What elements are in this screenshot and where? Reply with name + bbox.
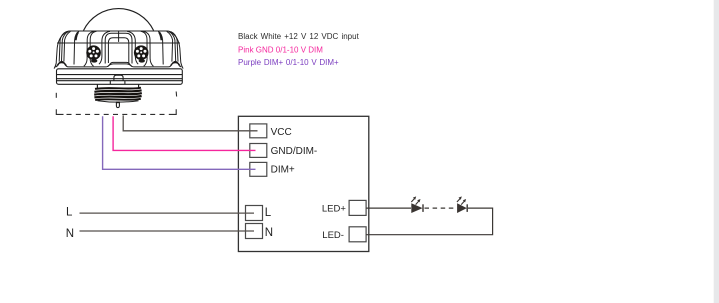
svg-text:LED-: LED- xyxy=(322,230,344,241)
svg-text:L: L xyxy=(66,207,73,219)
svg-text:L: L xyxy=(265,207,272,219)
svg-text:Black White +12 V 12 VDC inp: Black White +12 V 12 VDC input xyxy=(238,32,360,41)
svg-text:Purple DIM+ 0/1-10 V DIM+: Purple DIM+ 0/1-10 V DIM+ xyxy=(238,58,339,67)
svg-text:DIM+: DIM+ xyxy=(271,165,295,176)
svg-text:N: N xyxy=(265,227,273,239)
svg-text:N: N xyxy=(66,228,74,240)
svg-text:LED+: LED+ xyxy=(322,203,346,214)
svg-text:VCC: VCC xyxy=(271,127,292,138)
svg-text:GND/DIM-: GND/DIM- xyxy=(271,146,318,157)
svg-text:Pink GND 0/1-10 V DIM: Pink GND 0/1-10 V DIM xyxy=(238,46,323,55)
